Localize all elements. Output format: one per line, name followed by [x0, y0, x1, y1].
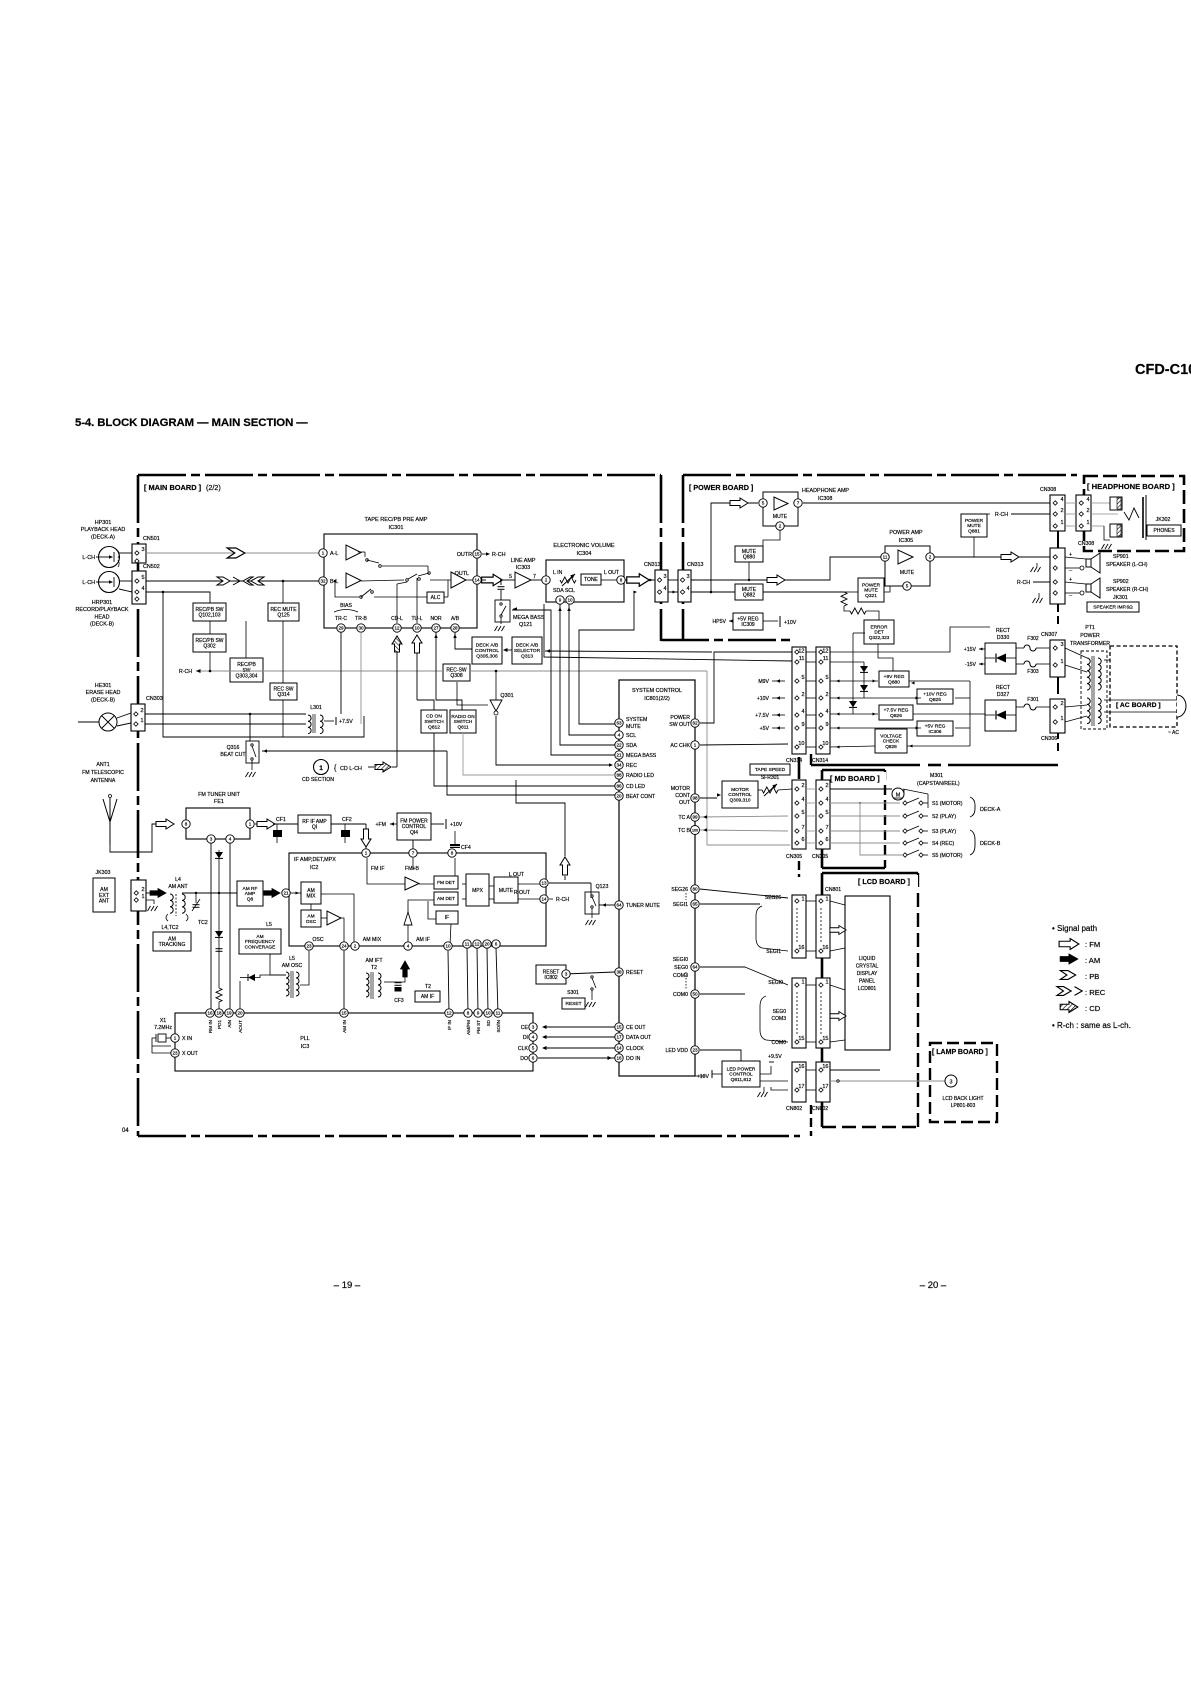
svg-text:5: 5 [762, 501, 765, 506]
svg-text:1: 1 [319, 765, 323, 772]
svg-text:HEADPHONE AMP: HEADPHONE AMP [802, 488, 849, 494]
svg-text:[ POWER BOARD ]: [ POWER BOARD ] [689, 483, 753, 492]
svg-text:ANTENNA: ANTENNA [91, 778, 116, 784]
svg-text:4: 4 [618, 733, 621, 738]
svg-text:16: 16 [207, 1011, 213, 1016]
svg-text:M9V: M9V [758, 679, 769, 685]
svg-text:REC: REC [626, 763, 637, 769]
svg-text:SPEAKER (L-CH): SPEAKER (L-CH) [1106, 562, 1148, 568]
svg-text:CONTROL: CONTROL [728, 792, 752, 798]
svg-text:+10V REG: +10V REG [923, 692, 947, 698]
svg-text:: CD: : CD [1085, 1004, 1101, 1013]
svg-text:AM/FM: AM/FM [466, 1020, 471, 1035]
svg-text:DATA OUT: DATA OUT [626, 1035, 652, 1041]
svg-text:100: 100 [692, 828, 698, 832]
svg-text:88: 88 [616, 773, 622, 778]
svg-text:13: 13 [541, 881, 547, 886]
svg-text:3: 3 [532, 1025, 535, 1030]
svg-text:12: 12 [798, 649, 804, 655]
svg-text:SCL: SCL [626, 733, 636, 739]
svg-text:Q308: Q308 [450, 673, 462, 679]
svg-text:[ MD BOARD ]: [ MD BOARD ] [830, 774, 880, 783]
svg-text:IC304: IC304 [577, 551, 592, 557]
svg-text:12: 12 [822, 649, 828, 655]
svg-text:Q322,323: Q322,323 [869, 635, 890, 640]
svg-text:11: 11 [799, 656, 805, 662]
svg-text:SEG0: SEG0 [674, 965, 688, 971]
svg-text:SW OUT: SW OUT [669, 722, 691, 728]
svg-text:3: 3 [210, 837, 213, 842]
svg-text:+10V: +10V [450, 822, 463, 828]
svg-text:10: 10 [445, 944, 451, 949]
svg-text:MEGA BASS: MEGA BASS [626, 753, 657, 759]
svg-text:OSC: OSC [306, 919, 317, 925]
svg-text:11: 11 [883, 555, 888, 560]
svg-text:CF2: CF2 [342, 817, 352, 823]
svg-text:16: 16 [822, 1064, 828, 1070]
svg-text:CD-L: CD-L [391, 616, 403, 622]
svg-text:ELECTRONIC VOLUME: ELECTRONIC VOLUME [553, 543, 614, 549]
svg-text:R-CH: R-CH [492, 552, 506, 558]
svg-text:FM TUNER UNIT: FM TUNER UNIT [198, 792, 241, 798]
svg-text:[ LCD BOARD ]: [ LCD BOARD ] [858, 877, 910, 886]
svg-text:16: 16 [798, 945, 804, 951]
svg-text:POWER: POWER [965, 518, 984, 524]
svg-text:AM: AM [307, 914, 314, 920]
svg-text:9: 9 [477, 1011, 480, 1016]
svg-text:9: 9 [559, 598, 562, 603]
svg-text:4: 4 [1086, 497, 1089, 503]
svg-text:11: 11 [465, 942, 470, 947]
svg-text:4: 4 [801, 709, 804, 715]
svg-text:20: 20 [237, 1011, 243, 1016]
svg-text:63: 63 [616, 721, 622, 726]
svg-text:6: 6 [801, 837, 804, 843]
svg-text:MUTE: MUTE [864, 588, 878, 594]
svg-text:4: 4 [825, 797, 828, 803]
svg-text:HEAD: HEAD [95, 614, 110, 620]
svg-text:BIAS: BIAS [340, 603, 352, 609]
svg-text:AM IFT: AM IFT [365, 958, 383, 964]
svg-text:LP801-803: LP801-803 [951, 1103, 976, 1109]
svg-text:PANEL: PANEL [859, 979, 875, 985]
svg-text:5: 5 [141, 575, 144, 581]
svg-text:FE1: FE1 [214, 799, 224, 805]
svg-text:7: 7 [412, 851, 415, 856]
svg-text:CONTROL: CONTROL [729, 1072, 753, 1078]
svg-text:IC801(2/2): IC801(2/2) [644, 696, 670, 702]
svg-text:CN314: CN314 [812, 758, 828, 764]
svg-text:S301: S301 [567, 990, 579, 996]
svg-text:6: 6 [532, 1056, 535, 1061]
svg-text:1: 1 [141, 894, 144, 900]
svg-text:X IN: X IN [182, 1036, 192, 1042]
svg-text:R-CH: R-CH [179, 669, 192, 675]
svg-text:FREQUENCY: FREQUENCY [245, 939, 276, 945]
svg-text:TRANSFORMER: TRANSFORMER [1070, 641, 1110, 647]
svg-text:SELECTOR: SELECTOR [514, 648, 541, 654]
svg-text:5: 5 [801, 675, 804, 681]
svg-text:+9.5V: +9.5V [768, 1054, 782, 1060]
svg-text:SYSTEM CONTROL: SYSTEM CONTROL [632, 688, 682, 694]
svg-text:RESET: RESET [566, 1001, 582, 1007]
svg-text:SP901: SP901 [1113, 554, 1129, 560]
svg-text:IC309: IC309 [741, 622, 755, 628]
svg-text:DISPLAY: DISPLAY [857, 971, 878, 977]
svg-text:CFD-C10: CFD-C10 [1135, 362, 1191, 378]
svg-text:JK303: JK303 [95, 870, 110, 876]
svg-text:Q812: Q812 [428, 725, 440, 731]
svg-text:CN502: CN502 [143, 564, 160, 570]
svg-text:• R-ch : same as L-ch.: • R-ch : same as L-ch. [1052, 1021, 1131, 1030]
svg-text:SP902: SP902 [1113, 579, 1129, 585]
svg-text:AMP: AMP [245, 891, 255, 897]
svg-text:11: 11 [823, 656, 829, 662]
svg-text:4: 4 [1060, 497, 1063, 503]
svg-text:99: 99 [692, 815, 698, 820]
svg-text:SFR301: SFR301 [761, 775, 780, 781]
svg-text:1: 1 [694, 743, 697, 748]
svg-text:Q8: Q8 [247, 897, 254, 903]
svg-text:TC B: TC B [678, 828, 690, 834]
svg-text:38: 38 [616, 970, 622, 975]
svg-text:2: 2 [801, 692, 804, 698]
svg-text:+10V: +10V [757, 696, 770, 702]
svg-text:3: 3 [141, 547, 144, 553]
svg-text:LCD BACK LIGHT: LCD BACK LIGHT [942, 1096, 983, 1102]
svg-text:PT1: PT1 [1085, 625, 1095, 631]
svg-text:MUTE: MUTE [773, 514, 788, 520]
svg-text:Q301: Q301 [500, 693, 513, 699]
svg-text:LCD801: LCD801 [858, 986, 877, 992]
svg-text:SEGI1: SEGI1 [673, 902, 688, 908]
svg-text:1: 1 [140, 718, 143, 724]
svg-text:7: 7 [797, 501, 800, 506]
svg-text:DECK-B: DECK-B [980, 841, 1001, 847]
svg-text:L4: L4 [175, 877, 181, 883]
svg-text:(CAPSTAN/REEL): (CAPSTAN/REEL) [917, 781, 960, 787]
svg-text:04: 04 [122, 1128, 129, 1134]
svg-text:10: 10 [414, 626, 420, 631]
svg-text:10: 10 [567, 598, 573, 603]
svg-text:3: 3 [686, 574, 689, 580]
svg-text:LINE AMP: LINE AMP [511, 558, 536, 564]
svg-text:14: 14 [474, 578, 480, 583]
svg-text:17: 17 [798, 1084, 804, 1090]
svg-text:+9V REG: +9V REG [884, 674, 905, 680]
svg-text:-15V: -15V [965, 662, 976, 668]
svg-text:TR-B: TR-B [355, 616, 367, 622]
svg-text:A-L: A-L [330, 551, 338, 557]
svg-text:17: 17 [822, 1084, 828, 1090]
svg-text:7: 7 [801, 825, 804, 831]
svg-text:SO/IN: SO/IN [496, 1020, 501, 1033]
svg-text:CONVERAGE: CONVERAGE [245, 945, 276, 951]
svg-text:1: 1 [1060, 659, 1063, 665]
svg-text:IF: IF [445, 915, 449, 921]
svg-text:80: 80 [692, 887, 698, 892]
svg-text:3: 3 [565, 972, 568, 977]
svg-text:IC3: IC3 [301, 1044, 309, 1050]
svg-text:4: 4 [686, 586, 689, 592]
svg-text:[ HEADPHONE BOARD ]: [ HEADPHONE BOARD ] [1087, 482, 1175, 491]
svg-text:FM DET: FM DET [437, 880, 455, 886]
svg-text:16: 16 [822, 945, 828, 951]
svg-text:JK301: JK301 [1113, 595, 1128, 601]
svg-text:TAPE SPEED: TAPE SPEED [755, 767, 786, 773]
svg-text:L4,TC2: L4,TC2 [161, 925, 178, 931]
svg-text:50: 50 [692, 992, 698, 997]
svg-text:HE301: HE301 [95, 683, 111, 689]
svg-text:Q313: Q313 [521, 654, 533, 660]
svg-text:Q309,310: Q309,310 [729, 798, 750, 804]
svg-text:D327: D327 [997, 692, 1010, 698]
svg-text:CE: CE [521, 1025, 529, 1031]
svg-text:MUTE: MUTE [626, 724, 641, 730]
svg-text:IC802: IC802 [544, 975, 558, 981]
svg-text:MUTE: MUTE [900, 570, 915, 576]
svg-text:CN314: CN314 [786, 758, 802, 764]
svg-text:Q123: Q123 [596, 884, 609, 890]
svg-text:15: 15 [474, 552, 480, 557]
svg-text:IC303: IC303 [516, 565, 530, 571]
svg-text:JK302: JK302 [1156, 517, 1171, 523]
svg-text:+10V: +10V [784, 620, 797, 626]
svg-text:CD LED: CD LED [626, 784, 645, 790]
svg-text:2: 2 [929, 555, 932, 560]
svg-text:X1: X1 [160, 1018, 166, 1024]
svg-text:L5: L5 [289, 956, 295, 962]
svg-text:CD ON: CD ON [426, 714, 442, 720]
svg-text:[ MAIN BOARD ]: [ MAIN BOARD ] [144, 483, 202, 492]
svg-text:CN305: CN305 [786, 854, 802, 860]
svg-text:Q316: Q316 [227, 745, 240, 751]
svg-text:Q882: Q882 [743, 593, 755, 599]
svg-text:14: 14 [616, 1046, 622, 1051]
svg-text:CONTROL: CONTROL [475, 648, 499, 654]
svg-text:A/B: A/B [451, 616, 460, 622]
svg-text:HP5V: HP5V [712, 619, 726, 625]
svg-text:(DECK-B): (DECK-B) [91, 697, 115, 703]
svg-text:1: 1 [365, 851, 368, 856]
svg-text:R-CH: R-CH [995, 512, 1008, 518]
svg-text:S2 (PLAY): S2 (PLAY) [932, 814, 956, 820]
svg-text:15: 15 [616, 1025, 622, 1030]
svg-text:Q880: Q880 [743, 555, 755, 561]
svg-text:S1 (MOTOR): S1 (MOTOR) [932, 801, 963, 807]
svg-text:DECK A/B: DECK A/B [516, 643, 539, 649]
svg-text:+5V REG: +5V REG [925, 724, 946, 730]
svg-text:SPEAKER IMP.6Ω: SPEAKER IMP.6Ω [1093, 605, 1133, 611]
svg-text:L301: L301 [310, 705, 322, 711]
svg-text:AM MIX: AM MIX [363, 937, 382, 943]
svg-text:23: 23 [172, 1051, 178, 1056]
svg-text:2: 2 [354, 944, 357, 949]
svg-text:SEG26: SEG26 [671, 887, 688, 893]
svg-text:16: 16 [798, 1064, 804, 1070]
svg-text:: AM: : AM [1085, 956, 1100, 965]
svg-text:+5V: +5V [760, 726, 770, 732]
svg-text:[ AC BOARD ]: [ AC BOARD ] [1116, 702, 1161, 709]
svg-text:+FM: +FM [375, 822, 386, 828]
svg-text:CD L-CH: CD L-CH [340, 766, 362, 772]
svg-text:+10V: +10V [697, 1074, 710, 1080]
svg-text:S4 (REC): S4 (REC) [932, 841, 954, 847]
svg-text:Q825: Q825 [929, 697, 941, 703]
svg-text:– 19 –: – 19 – [334, 1280, 361, 1291]
svg-text:4: 4 [801, 797, 804, 803]
svg-text:8: 8 [620, 578, 623, 583]
svg-text:RECT: RECT [996, 628, 1011, 634]
svg-text:S5 (MOTOR): S5 (MOTOR) [932, 853, 963, 859]
svg-text:5: 5 [801, 810, 804, 816]
svg-text:DO: DO [520, 1056, 528, 1062]
svg-text:1: 1 [801, 897, 804, 903]
svg-text:AM: AM [256, 934, 263, 940]
svg-text:PLL: PLL [300, 1036, 310, 1042]
svg-text:65: 65 [692, 902, 698, 907]
svg-text:T2: T2 [425, 984, 431, 990]
svg-text:QI4: QI4 [410, 830, 418, 836]
svg-text:32: 32 [320, 579, 326, 584]
svg-text:11: 11 [496, 1011, 501, 1016]
svg-text:CHECK: CHECK [883, 739, 900, 744]
svg-text:HP301: HP301 [95, 520, 111, 526]
svg-text:: REC: : REC [1085, 988, 1106, 997]
svg-text:SD: SD [486, 1019, 491, 1026]
svg-text:SEGI0: SEGI0 [768, 980, 783, 986]
svg-text:[ LAMP BOARD ]: [ LAMP BOARD ] [932, 1049, 988, 1056]
svg-text:LED VDD: LED VDD [666, 1048, 689, 1054]
svg-text:5: 5 [532, 1046, 535, 1051]
svg-text:OSC: OSC [312, 937, 323, 943]
svg-text:ALC: ALC [431, 595, 441, 601]
svg-text:6: 6 [495, 942, 498, 947]
svg-text:+15V: +15V [964, 647, 977, 653]
svg-text:TC2: TC2 [198, 920, 208, 926]
svg-text:18: 18 [216, 1011, 222, 1016]
svg-text:OUTR: OUTR [457, 552, 472, 558]
svg-text:: PB: : PB [1085, 972, 1099, 981]
svg-text:L5: L5 [266, 922, 272, 928]
svg-text:(2/2): (2/2) [206, 483, 221, 492]
svg-text:OUT: OUT [679, 800, 691, 806]
svg-text:ANT1: ANT1 [96, 762, 109, 768]
svg-text:7.2MHz: 7.2MHz [154, 1025, 172, 1031]
svg-text:22: 22 [616, 743, 622, 748]
svg-text:+7.5V: +7.5V [755, 713, 769, 719]
svg-text:CF3: CF3 [394, 998, 404, 1004]
svg-text:F302: F302 [1027, 636, 1039, 642]
svg-text:2: 2 [1060, 701, 1063, 707]
svg-text:S3 (PLAY): S3 (PLAY) [932, 829, 956, 835]
svg-text:4: 4 [532, 1035, 535, 1040]
svg-text:L-CH: L-CH [82, 555, 95, 561]
svg-text:10: 10 [485, 1011, 491, 1016]
svg-text:2: 2 [825, 783, 828, 789]
svg-text:POWER: POWER [862, 582, 881, 588]
svg-text:F301: F301 [1027, 697, 1039, 703]
svg-text:IF IN: IF IN [447, 1020, 452, 1030]
svg-text:SWITCH: SWITCH [454, 719, 473, 724]
svg-text:L OUT: L OUT [604, 570, 620, 576]
svg-text:12: 12 [394, 626, 400, 631]
svg-text:SDA: SDA [626, 743, 637, 749]
svg-text:MIX: MIX [307, 894, 317, 900]
svg-text:7: 7 [825, 825, 828, 831]
svg-text:28: 28 [452, 626, 458, 631]
svg-text:8: 8 [185, 822, 188, 827]
svg-text:PHONES: PHONES [1153, 528, 1175, 534]
svg-text:Q302: Q302 [203, 644, 215, 650]
svg-text:CN306: CN306 [1041, 736, 1057, 742]
svg-text:5: 5 [825, 675, 828, 681]
svg-text:CN313: CN313 [687, 562, 704, 568]
svg-text:2: 2 [1060, 508, 1063, 514]
svg-text:COM3: COM3 [772, 1016, 787, 1022]
svg-text:SEG0: SEG0 [773, 1009, 787, 1015]
svg-text:10: 10 [798, 741, 804, 747]
svg-text:R OUT: R OUT [514, 890, 531, 896]
svg-text:TUNER MUTE: TUNER MUTE [626, 903, 661, 909]
svg-text:4: 4 [141, 586, 144, 592]
svg-text:COM0: COM0 [673, 992, 688, 998]
svg-text:CF4: CF4 [461, 845, 471, 851]
svg-text:T2: T2 [371, 965, 377, 971]
svg-text:8: 8 [451, 851, 454, 856]
svg-text:3: 3 [663, 574, 666, 580]
svg-text:CE OUT: CE OUT [626, 1025, 646, 1031]
svg-text:CN305: CN305 [812, 854, 828, 860]
svg-text:CN308: CN308 [1078, 541, 1094, 547]
svg-text:Q125: Q125 [277, 613, 289, 619]
svg-text:15: 15 [341, 1011, 347, 1016]
svg-text:4: 4 [663, 586, 666, 592]
svg-text:9: 9 [801, 722, 804, 728]
svg-text:Q881: Q881 [968, 529, 980, 535]
svg-text:AM ANT: AM ANT [168, 884, 188, 890]
svg-text:1: 1 [825, 897, 828, 903]
svg-text:34: 34 [616, 763, 622, 768]
svg-text:27: 27 [433, 626, 439, 631]
svg-text:: FM: : FM [1085, 940, 1100, 949]
svg-text:5: 5 [906, 584, 909, 589]
svg-text:SPEAKER (R-CH): SPEAKER (R-CH) [1106, 587, 1149, 593]
svg-text:QI: QI [312, 825, 317, 831]
svg-text:CN802: CN802 [786, 1106, 802, 1112]
svg-text:4: 4 [825, 709, 828, 715]
svg-text:2: 2 [779, 524, 782, 529]
svg-text:7: 7 [533, 574, 536, 580]
svg-text:30: 30 [358, 626, 364, 631]
svg-text:R-CH: R-CH [1017, 580, 1030, 586]
svg-text:AM DET: AM DET [437, 896, 455, 902]
svg-text:Q305,306: Q305,306 [476, 654, 498, 660]
svg-text:2: 2 [140, 708, 143, 714]
svg-text:DI: DI [523, 1035, 528, 1041]
svg-text:17: 17 [616, 1035, 622, 1040]
svg-text:2: 2 [801, 783, 804, 789]
svg-text:POWER: POWER [670, 715, 690, 721]
svg-text:21: 21 [283, 891, 289, 896]
svg-text:CD SECTION: CD SECTION [302, 777, 334, 783]
svg-text:~ AC: ~ AC [1168, 730, 1179, 736]
svg-text:IC306: IC306 [928, 729, 941, 735]
svg-text:MUTE: MUTE [967, 523, 981, 529]
svg-text:TC A: TC A [678, 815, 690, 821]
svg-text:AC CHK: AC CHK [670, 743, 690, 749]
svg-text:RECT: RECT [996, 685, 1011, 691]
